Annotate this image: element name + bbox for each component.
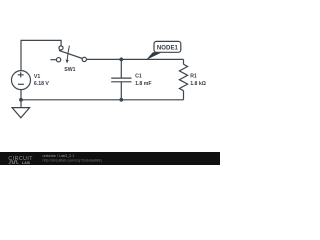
footer bar <box>0 152 220 165</box>
minus sign <box>18 83 24 85</box>
svg-text:SW1: SW1 <box>64 67 75 73</box>
resistor R1 <box>179 59 187 99</box>
C1 bottom plate <box>111 81 131 83</box>
svg-text:C1: C1 <box>135 74 142 80</box>
junction dot at C1 top <box>119 58 123 62</box>
junction dot at C1 bottom <box>119 98 123 102</box>
plus sign <box>18 72 24 77</box>
node NODE1 flag pointer <box>146 52 162 60</box>
SW1 right terminal <box>82 57 86 61</box>
capacitor C1 <box>111 59 131 99</box>
SW1 arrowhead <box>66 60 69 64</box>
junction dot at ground node <box>19 98 23 102</box>
CircuitLab logo squarewave <box>9 161 19 163</box>
SW1 pivot terminal <box>59 46 63 50</box>
svg-text:V1: V1 <box>34 74 40 80</box>
R1 zigzag <box>179 64 187 90</box>
SW1 left stub wire <box>50 59 56 61</box>
wire: bottom rail <box>21 99 184 101</box>
wire: V1 top up and across to switch <box>21 40 61 70</box>
svg-text:R1: R1 <box>190 74 197 80</box>
node NODE1 box <box>154 41 181 52</box>
voltage source V1 <box>12 71 31 90</box>
ground <box>12 100 30 118</box>
SW1 left open terminal <box>56 58 60 62</box>
SW1 blade <box>59 50 83 58</box>
svg-text:NODE1: NODE1 <box>157 45 179 51</box>
svg-text:1.8 kΩ: 1.8 kΩ <box>190 81 206 87</box>
switch SW1 <box>50 46 86 62</box>
svg-text:urtstube / Lab3_2.1: urtstube / Lab3_2.1 <box>43 154 75 158</box>
svg-text:1.8 mF: 1.8 mF <box>135 81 151 87</box>
C1 top plate <box>111 77 131 79</box>
svg-text:6.18 V: 6.18 V <box>34 81 50 87</box>
wire: switch right terminal to R1 top corner <box>87 58 184 60</box>
wire: V1 bottom to ground node <box>20 90 22 100</box>
svg-text:LAB: LAB <box>22 161 31 165</box>
SW1 actuation arrow <box>67 46 69 61</box>
svg-text:http://circuitlab.com/c/q72sdu: http://circuitlab.com/c/q72sdu8a88fq <box>43 158 102 162</box>
